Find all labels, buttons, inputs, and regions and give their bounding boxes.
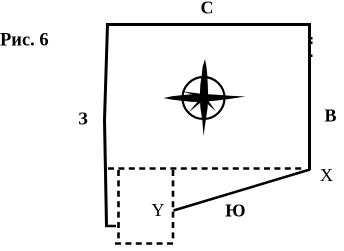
svg-text:Ю: Ю xyxy=(225,201,245,221)
svg-text:Y: Y xyxy=(152,200,165,220)
svg-text:С: С xyxy=(201,0,214,18)
svg-text:З: З xyxy=(78,109,88,129)
svg-text:X: X xyxy=(320,165,333,185)
svg-text:В: В xyxy=(325,106,337,126)
svg-text:Рис. 6: Рис. 6 xyxy=(0,31,49,51)
